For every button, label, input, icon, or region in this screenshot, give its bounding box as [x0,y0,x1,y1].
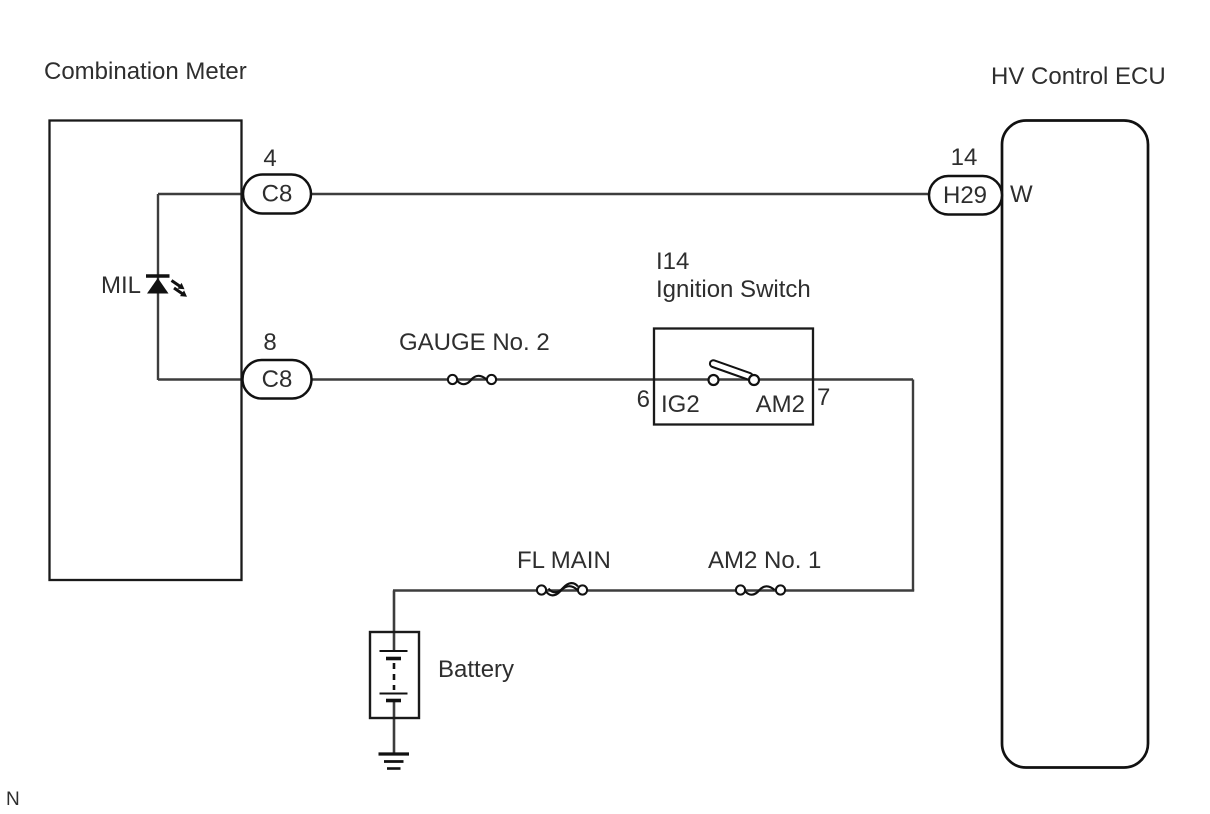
connector C8 pin 4 oval [243,175,311,214]
svg-text:N: N [6,789,20,810]
svg-text:Ignition Switch: Ignition Switch [656,276,811,303]
wire: internal MIL branch vertical [157,194,159,380]
page marker N [6,789,20,810]
svg-text:I14: I14 [656,248,689,275]
combination meter box [50,121,242,581]
pin number 4 [263,145,276,172]
label Ignition Switch [656,276,811,303]
svg-text:4: 4 [263,145,276,172]
terminal label IG2 [661,391,700,418]
svg-text:IG2: IG2 [661,391,700,418]
LED emission arrows [172,281,188,297]
svg-text:FL MAIN: FL MAIN [517,547,611,574]
switch lever [709,359,754,380]
wire color label W [1010,181,1033,208]
svg-text:AM2: AM2 [756,391,805,418]
wire: AM2 pin 7 down to AM2 No.1 fuse line [912,380,914,591]
fusible link FL MAIN [537,583,587,595]
svg-text:C8: C8 [262,181,293,208]
label MIL [101,272,141,299]
terminal label AM2 [756,391,805,418]
pin number 14 [951,144,978,171]
svg-text:14: 14 [951,144,978,171]
label FL MAIN [517,547,611,574]
svg-text:Combination Meter: Combination Meter [44,58,247,85]
svg-text:AM2 No. 1: AM2 No. 1 [708,547,821,574]
pin 7 label [817,384,830,411]
switch contact circles [709,375,760,385]
svg-text:Battery: Battery [438,656,514,683]
label Battery [438,656,514,683]
connector C8 pin 8 oval [243,360,312,399]
ignition switch box [654,329,813,425]
label: HV Control ECU [991,63,1166,90]
svg-text:8: 8 [263,329,276,356]
connector H29 pin 14 oval [929,176,1002,215]
label AM2 No. 1 [708,547,821,574]
wire W: pin 4 C8 to pin 14 H29 [158,193,931,195]
svg-text:6: 6 [637,386,650,413]
HV Control ECU box [1002,121,1148,768]
ground [379,754,410,769]
svg-text:W: W [1010,181,1033,208]
svg-text:C8: C8 [262,366,293,393]
pin number 8 [263,329,276,356]
LED MIL [146,276,170,294]
svg-text:GAUGE No. 2: GAUGE No. 2 [399,329,550,356]
label GAUGE No. 2 [399,329,550,356]
svg-text:H29: H29 [943,182,987,209]
fuse GAUGE No. 2 [448,375,496,384]
svg-text:7: 7 [817,384,830,411]
wire: battery to fusible link to node [393,589,914,591]
fuse AM2 No. 1 [736,585,785,594]
svg-text:MIL: MIL [101,272,141,299]
wire: down into battery [393,591,396,652]
pin 6 label [637,386,650,413]
wire: pin 8 C8 to ignition switch IG2 and AM2 to node [158,378,913,380]
svg-text:HV Control ECU: HV Control ECU [991,63,1166,90]
battery box [370,632,419,718]
battery plates [380,651,408,701]
label: Combination Meter [44,58,247,85]
wire: battery to ground [393,700,396,753]
label I14 [656,248,689,275]
